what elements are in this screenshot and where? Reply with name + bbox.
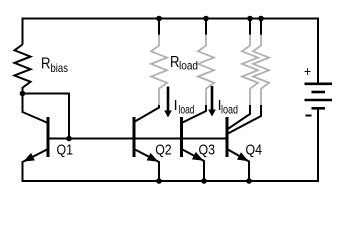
- node dot R_load4 top: [258, 16, 264, 22]
- svg-text:+: +: [304, 63, 311, 79]
- transistor Q2: [134, 105, 159, 181]
- wire R_load3 top stub: [249, 19, 251, 36]
- svg-text:load: load: [179, 59, 198, 73]
- resistor R_load1 (gray): [151, 35, 167, 107]
- node dot Q2 emitter bottom: [156, 178, 162, 184]
- label R_bias: [41, 56, 68, 76]
- wire R_load1 top stub: [158, 19, 160, 36]
- current arrow I_load 1: [164, 87, 172, 118]
- wire top rail and left/right verticals: [23, 19, 319, 84]
- transistor Q3: [182, 105, 207, 181]
- current arrow I_load 2: [208, 86, 216, 117]
- node dot R_load3 top: [247, 16, 253, 22]
- svg-text:load: load: [179, 103, 195, 117]
- resistor R_load4 (gray): [253, 35, 269, 107]
- transistor Q1: [23, 94, 49, 182]
- resistor R_load3 (gray): [242, 35, 258, 107]
- wire collector-base jumper of Q1: [23, 94, 70, 139]
- transistor Q4: [227, 105, 261, 181]
- emitter arrow Q4: [238, 153, 248, 160]
- battery V1: [305, 84, 333, 109]
- svg-text:I: I: [174, 97, 178, 114]
- node dot R_load1 top: [156, 16, 162, 22]
- svg-text:load: load: [221, 103, 238, 117]
- node dot R_bias bottom: [20, 91, 26, 97]
- label I_load 2: [218, 97, 239, 117]
- node dot Q4 emitter bottom: [246, 178, 252, 184]
- node dot base rail: [66, 136, 72, 142]
- svg-text:Q4: Q4: [246, 141, 263, 158]
- resistor R_bias: [15, 45, 31, 94]
- resistor R_load2 (gray): [198, 35, 214, 107]
- label I_load 1: [174, 97, 195, 117]
- emitter arrow Q1: [25, 154, 35, 161]
- emitter arrow Q2: [147, 154, 157, 161]
- emitter arrow Q3: [193, 153, 203, 160]
- svg-text:Q3: Q3: [199, 141, 216, 158]
- wire base rail Q1-Q4: [48, 138, 227, 140]
- label R_load: [170, 54, 198, 73]
- node dot Q3 emitter bottom: [201, 178, 207, 184]
- battery - label: [306, 115, 312, 117]
- node dot R_load2 top: [203, 16, 209, 22]
- svg-text:R: R: [41, 56, 51, 73]
- wire R_load2 top stub: [205, 19, 207, 36]
- svg-text:Q2: Q2: [155, 141, 172, 158]
- wire bottom rail and right vertical: [23, 108, 319, 181]
- svg-text:Q1: Q1: [57, 141, 74, 158]
- wire R_load4 top stub: [260, 19, 262, 36]
- svg-text:bias: bias: [51, 61, 69, 75]
